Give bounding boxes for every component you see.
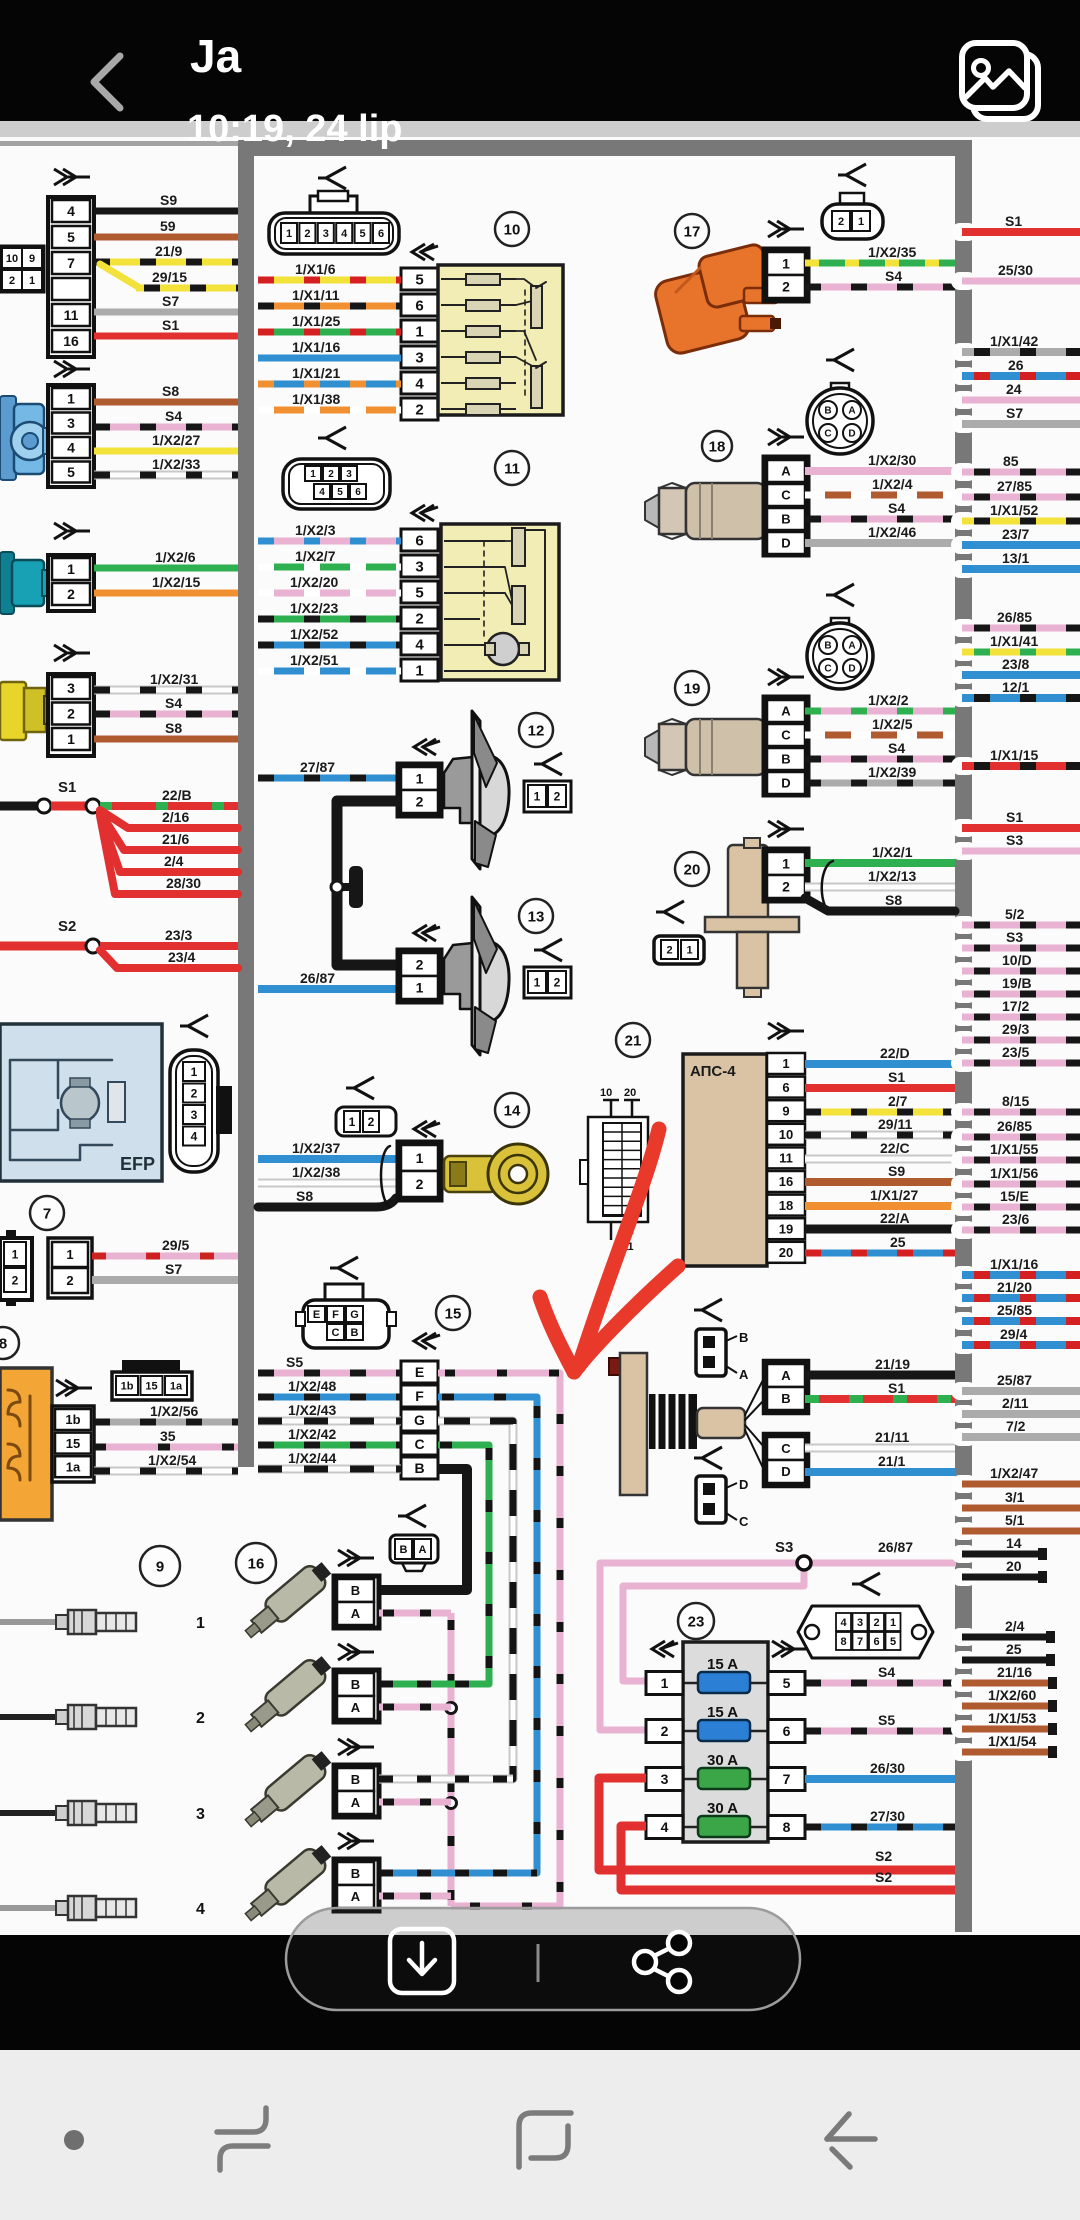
svg-text:10: 10: [6, 253, 18, 265]
svg-text:4: 4: [319, 487, 325, 498]
wire 1/X2/33 white/black: [94, 471, 238, 480]
svg-text:2: 2: [415, 401, 423, 418]
svg-text:1/X1/6: 1/X1/6: [295, 261, 336, 277]
svg-text:29/15: 29/15: [152, 269, 187, 285]
injector 3 A wire pink: [379, 1799, 451, 1806]
svg-text:6: 6: [415, 297, 423, 314]
connector arrow above X2 stack: [54, 361, 90, 377]
radiator fan motor 12: [444, 757, 473, 823]
svg-text:1/X2/5: 1/X2/5: [872, 716, 913, 732]
ECU controller frame right bar: [955, 140, 972, 1932]
wire 1/X2/30 pink: [805, 467, 955, 475]
svg-text:26/30: 26/30: [870, 1760, 905, 1776]
wire 25/30 (right stub): [951, 272, 977, 290]
svg-text:15 A: 15 A: [707, 1656, 738, 1673]
wire 1/X2/7 green/white: [258, 564, 401, 571]
svg-text:A: A: [351, 1795, 361, 1810]
svg-text:4: 4: [661, 1819, 669, 1835]
svg-text:S4: S4: [165, 695, 182, 711]
ignition module pin stack 1b/15/1a: [52, 1406, 94, 1482]
wire 26/87 blue: [258, 985, 401, 993]
wire S1 red: [805, 1084, 955, 1092]
svg-text:18: 18: [779, 1198, 793, 1213]
svg-text:21: 21: [625, 1033, 642, 1050]
injector 2 B wire: [379, 1681, 489, 1688]
svg-text:D: D: [781, 536, 790, 551]
O2 sensor 19 round connector B/A/C/D: [831, 618, 849, 630]
wire 85 (right stub): [951, 463, 977, 481]
numbered circle 9: [140, 1546, 180, 1586]
svg-text:1/X1/52: 1/X1/52: [990, 502, 1038, 518]
svg-text:3: 3: [857, 1617, 863, 1629]
svg-text:S4: S4: [165, 408, 182, 424]
svg-text:19: 19: [779, 1221, 793, 1236]
svg-text:15: 15: [66, 1436, 80, 1451]
connector D/C (item 22): [696, 1476, 726, 1523]
svg-text:27/30: 27/30: [870, 1808, 905, 1824]
wire 1/X2/15 orange: [94, 590, 238, 597]
harness run black B to injector 1: [376, 1469, 467, 1590]
wire 29/11 white/black: [805, 1131, 955, 1140]
bottom black letterbox bar: [0, 1935, 1080, 2050]
wire 1/X1/38 orange/white: [258, 407, 401, 414]
wire S4 pink/black: [805, 756, 955, 763]
spark plug 3: [0, 1810, 58, 1816]
fuel injector 2: [239, 1651, 335, 1738]
svg-text:59: 59: [160, 218, 176, 234]
fork above injector rail connector: [398, 1505, 426, 1527]
numbered circle 8 (edge): [0, 1327, 19, 1359]
wire 1/X2/13 white: [805, 883, 955, 892]
svg-text:27/87: 27/87: [300, 759, 335, 775]
svg-text:A: A: [848, 641, 855, 652]
wire 1/X2/23 green/black: [258, 616, 401, 623]
svg-text:1: 1: [534, 789, 541, 803]
crank sensor connector 2|1: [654, 936, 704, 964]
wire 1/X2/48 blue/black: [258, 1394, 401, 1401]
wire 10/D (right stub): [951, 962, 977, 980]
oil pressure sensor (yellow): [0, 682, 26, 740]
svg-text:E: E: [415, 1364, 424, 1380]
wire 1/X1/25 green/red: [258, 329, 401, 336]
wire S5 pink/black (fuse 6): [805, 1728, 955, 1735]
svg-text:1/X2/39: 1/X2/39: [868, 764, 916, 780]
wire S4 pink/black (fuse 5): [805, 1680, 955, 1687]
wire 1/X2/54 white/black: [94, 1467, 238, 1476]
svg-text:21/19: 21/19: [875, 1356, 910, 1372]
svg-text:S3: S3: [775, 1539, 793, 1556]
wire 1/X1/21 blue/orange: [258, 381, 401, 388]
fork above item 15 connector: [330, 1257, 358, 1279]
red annotation arrow tail: [579, 1129, 659, 1366]
svg-text:S3: S3: [1006, 929, 1023, 945]
svg-text:2/7: 2/7: [888, 1093, 908, 1109]
wire S1 (right stub): [951, 223, 977, 241]
harness run pink (S5) E to injector feed: [438, 1373, 560, 1906]
wire S8 black (shielded): [258, 1198, 396, 1207]
svg-text:B: B: [781, 752, 790, 767]
svg-text:1/X2/4: 1/X2/4: [872, 476, 913, 492]
connector arrow above X4 stack: [54, 645, 90, 661]
fuse 30A #4: [683, 1826, 768, 1829]
svg-text:D: D: [739, 1477, 748, 1492]
wire 22/B red/green: [100, 802, 238, 810]
svg-text:9: 9: [782, 1103, 789, 1118]
wire 29/3 (right stub): [951, 1031, 977, 1049]
wire 1/X1/54 (right stub): [951, 1743, 977, 1761]
svg-text:S4: S4: [888, 500, 905, 516]
svg-text:1a: 1a: [66, 1459, 81, 1474]
svg-text:7/2: 7/2: [1006, 1418, 1026, 1434]
svg-text:2: 2: [661, 1723, 669, 1739]
svg-text:1: 1: [416, 980, 424, 996]
svg-text:B: B: [351, 1583, 360, 1598]
svg-text:1: 1: [782, 1056, 789, 1071]
wire 25/85 (right stub): [951, 1312, 977, 1330]
svg-text:10: 10: [779, 1127, 793, 1142]
svg-text:1: 1: [67, 391, 75, 407]
svg-text:1/X1/11: 1/X1/11: [292, 287, 340, 303]
svg-text:3: 3: [196, 1806, 205, 1823]
fork above fan 13 connector: [534, 939, 562, 961]
svg-text:6: 6: [355, 487, 361, 498]
svg-text:B: B: [824, 406, 831, 417]
svg-text:1/X2/35: 1/X2/35: [868, 244, 916, 260]
svg-text:25/87: 25/87: [997, 1372, 1032, 1388]
svg-text:35: 35: [160, 1428, 176, 1444]
wire 21/9 yellow/black: [94, 259, 238, 266]
connector block of item 11 (2x3): [283, 459, 390, 509]
wire 1/X2/2 pink/green: [805, 708, 955, 715]
svg-text:B: B: [351, 1866, 360, 1881]
injector 4 B wire: [379, 1870, 537, 1877]
svg-text:26/85: 26/85: [997, 609, 1032, 625]
svg-text:26: 26: [1008, 357, 1024, 373]
svg-text:14: 14: [1006, 1535, 1022, 1551]
indicator lamp block (item 21): [610, 1100, 613, 1120]
svg-text:S1: S1: [888, 1380, 905, 1396]
scan page top border line (left section): [0, 141, 238, 146]
wire 1/X2/31 white/black: [94, 686, 238, 695]
svg-text:1: 1: [67, 561, 75, 577]
ECU arrow item 10: [412, 244, 438, 260]
svg-text:1/X1/27: 1/X1/27: [870, 1187, 918, 1203]
wire 1/X2/52 blue/black: [258, 642, 401, 649]
wire S4 pink/black: [94, 711, 238, 718]
red annotation arrow head left stroke: [540, 1297, 574, 1372]
O2 sensor 19 pin box A/C/B/D: [768, 669, 804, 685]
svg-text:1: 1: [415, 662, 423, 679]
arrow above ignition module pins: [56, 1380, 92, 1396]
svg-text:B: B: [739, 1330, 748, 1345]
svg-text:A: A: [781, 464, 791, 479]
svg-text:3: 3: [415, 558, 423, 575]
connector X3 pin stack 1/2: [48, 555, 94, 611]
svg-text:2: 2: [416, 1176, 424, 1192]
svg-text:C: C: [332, 1327, 340, 1339]
wire 1/X2/4 brown/white: [805, 492, 955, 499]
svg-text:S4: S4: [885, 268, 902, 284]
ignition coil (orange): [653, 264, 752, 356]
svg-text:4: 4: [196, 1901, 205, 1918]
O2 sensor 18 pin box A/C/B/D: [768, 429, 804, 445]
junction node on fan link: [337, 883, 352, 891]
fan 12 connector 1|2: [524, 781, 571, 812]
wire 26/87 pink with S3 splice: [600, 1563, 956, 1730]
svg-text:A: A: [781, 1368, 791, 1383]
svg-text:S9: S9: [160, 192, 177, 208]
svg-text:21/9: 21/9: [155, 243, 182, 259]
wire S1 red/green: [805, 1395, 955, 1403]
svg-text:S1: S1: [162, 317, 179, 333]
svg-text:22/B: 22/B: [162, 787, 192, 803]
connector fork above item 10: [318, 167, 346, 189]
separator line: [537, 1944, 540, 1982]
svg-text:1/X2/20: 1/X2/20: [290, 574, 338, 590]
camshaft sensor (blue): [0, 396, 16, 480]
svg-text:15 A: 15 A: [707, 1704, 738, 1721]
numbered circle 17: [675, 214, 709, 248]
svg-text:1: 1: [661, 1675, 669, 1691]
svg-text:C: C: [781, 1441, 791, 1456]
svg-text:5: 5: [890, 1636, 896, 1648]
svg-text:1/X2/44: 1/X2/44: [288, 1450, 336, 1466]
fuel injector 4: [239, 1840, 335, 1927]
svg-text:25/30: 25/30: [998, 262, 1033, 278]
wire 1/X2/39 gray/black: [805, 780, 955, 787]
svg-text:1/X2/51: 1/X2/51: [290, 652, 338, 668]
svg-text:6: 6: [783, 1723, 791, 1739]
svg-text:2/4: 2/4: [164, 853, 184, 869]
svg-text:8: 8: [840, 1636, 846, 1648]
svg-text:B: B: [351, 1327, 359, 1339]
fuse 15A #2: [683, 1730, 768, 1733]
injector 4 A wire pink: [379, 1893, 451, 1900]
APS-4 pin column: [768, 1023, 804, 1039]
wire 29/15 yellow/black: [100, 264, 140, 288]
svg-text:2: 2: [191, 1086, 198, 1100]
injector 2 A wire pink: [379, 1704, 451, 1711]
item 22 pin boxes A/B and C/D: [764, 1361, 808, 1413]
svg-text:29/11: 29/11: [878, 1116, 912, 1132]
ECU pin column 6/3/5/2/4/1: [401, 529, 438, 551]
injector 2 arrow: [338, 1644, 374, 1660]
svg-text:1/X2/30: 1/X2/30: [868, 452, 916, 468]
svg-text:1: 1: [191, 1065, 198, 1079]
wire 1/X2/20 pink/white: [258, 590, 401, 597]
S3 splice branch to fuse 1: [623, 1563, 804, 1681]
numbered circle 15: [436, 1296, 470, 1330]
svg-text:2: 2: [873, 1617, 879, 1629]
wire 1/X1/15 (right stub): [951, 757, 977, 775]
svg-text:D: D: [848, 429, 855, 440]
svg-text:1/X1/42: 1/X1/42: [990, 333, 1038, 349]
oxygen sensor 18: [645, 494, 659, 528]
svg-text:3: 3: [415, 349, 423, 366]
spark plug 1: [0, 1619, 58, 1625]
svg-text:1: 1: [12, 1247, 19, 1261]
wire 1/X2/60 (right stub): [951, 1697, 977, 1715]
svg-text:2: 2: [666, 944, 672, 956]
svg-text:25/85: 25/85: [997, 1302, 1032, 1318]
svg-text:S7: S7: [162, 293, 179, 309]
wire 1/X2/46 gray: [805, 539, 955, 547]
wire 22/D blue: [805, 1060, 955, 1068]
fuse 15A #1: [683, 1682, 768, 1685]
svg-text:1/X2/13: 1/X2/13: [868, 868, 916, 884]
svg-text:1/X2/43: 1/X2/43: [288, 1402, 336, 1418]
wire 12/1 (right stub): [951, 689, 977, 707]
svg-text:S3: S3: [1006, 832, 1023, 848]
svg-text:1a: 1a: [170, 1380, 183, 1392]
solenoid valve (item 22): [609, 1358, 623, 1375]
item 15 pin column E/F/G/C/B: [401, 1361, 438, 1383]
fan 13 connector 1|2: [524, 967, 571, 998]
svg-text:10:19, 24 lip: 10:19, 24 lip: [187, 108, 402, 150]
svg-text:15/E: 15/E: [1000, 1188, 1029, 1204]
svg-text:S1: S1: [888, 1069, 905, 1085]
svg-text:1/X2/54: 1/X2/54: [148, 1452, 196, 1468]
wire 1/X2/3 pink/blue: [258, 538, 401, 545]
scanned photo top gray edge: [0, 121, 1080, 137]
svg-text:2: 2: [368, 1115, 375, 1129]
numbered circle 11: [495, 451, 529, 485]
8-pin hex connector 4/3/2/1 8/7/6/5: [798, 1606, 933, 1658]
oxygen sensor 19: [645, 730, 659, 764]
svg-text:3: 3: [661, 1771, 669, 1787]
svg-text:C: C: [414, 1436, 424, 1452]
injector 4 arrow: [338, 1833, 374, 1849]
svg-text:S8: S8: [162, 383, 179, 399]
svg-text:5: 5: [67, 229, 75, 245]
svg-text:14: 14: [504, 1103, 521, 1120]
svg-text:1: 1: [67, 731, 75, 747]
svg-text:1/X1/54: 1/X1/54: [988, 1733, 1036, 1749]
wire 28/30 red: [100, 816, 238, 894]
svg-text:21/1: 21/1: [878, 1453, 905, 1469]
svg-text:2: 2: [328, 469, 334, 480]
injector 1 arrow: [338, 1550, 374, 1566]
svg-text:2: 2: [9, 275, 15, 287]
svg-text:S4: S4: [888, 740, 905, 756]
S3 splice node: [797, 1556, 811, 1570]
svg-text:2: 2: [196, 1710, 205, 1727]
wire 3/1 (right stub): [951, 1499, 977, 1517]
wire 29/5 pink/red: [92, 1253, 238, 1260]
svg-text:20: 20: [684, 862, 701, 879]
svg-text:6: 6: [378, 228, 384, 240]
wire 21/1 blue: [805, 1468, 955, 1476]
svg-text:1/X1/21: 1/X1/21: [292, 365, 340, 381]
crankshaft position sensor (beige): [728, 845, 768, 921]
fork above coil connector: [838, 164, 866, 186]
svg-text:1/X2/33: 1/X2/33: [152, 456, 200, 472]
wire 1/X1/11 orange/black: [258, 303, 401, 310]
wire 26/85 (right stub): [951, 619, 977, 637]
wire S7 (right stub): [951, 415, 977, 433]
wire 1/X1/6 yellow/red: [258, 277, 401, 284]
svg-text:4: 4: [415, 375, 424, 392]
svg-text:1/X1/56: 1/X1/56: [990, 1165, 1038, 1181]
svg-text:13: 13: [528, 909, 545, 926]
svg-text:1: 1: [782, 856, 790, 872]
ECU arrow item 14: [414, 1121, 440, 1137]
numbered circle 12: [519, 713, 553, 747]
svg-text:22/C: 22/C: [880, 1140, 910, 1156]
connector small 4-pin (10/9/2/1) at left edge: [0, 246, 44, 292]
svg-text:2/4: 2/4: [1005, 1618, 1025, 1634]
svg-text:1: 1: [890, 1617, 896, 1629]
svg-text:16: 16: [779, 1174, 793, 1189]
svg-text:2: 2: [415, 610, 423, 627]
svg-text:26/87: 26/87: [300, 970, 335, 986]
wire 26/85 (right stub): [951, 1128, 977, 1146]
fuse 30A #3: [683, 1778, 768, 1781]
svg-text:2: 2: [66, 1273, 73, 1288]
svg-text:29/5: 29/5: [162, 1237, 189, 1253]
svg-text:E: E: [313, 1309, 320, 1321]
svg-text:9: 9: [156, 1559, 164, 1576]
svg-text:1: 1: [310, 469, 316, 480]
svg-text:A: A: [351, 1889, 361, 1904]
wire S3 (right stub): [951, 939, 977, 957]
ECU arrows fuse box: [652, 1641, 678, 1657]
fork above O2 sensor 18 connector: [826, 349, 854, 371]
svg-text:1/X2/56: 1/X2/56: [150, 1403, 198, 1419]
wire 25 (right stub): [951, 1651, 977, 1669]
fork above knock sensor connector: [346, 1077, 374, 1099]
svg-text:27/85: 27/85: [997, 478, 1032, 494]
svg-text:8/15: 8/15: [1002, 1093, 1029, 1109]
wire 26/30 blue (fuse 7): [805, 1775, 955, 1783]
knock sensor (yellow ring): [444, 1156, 496, 1192]
numbered circle 18: [702, 431, 732, 461]
svg-text:30 A: 30 A: [707, 1800, 738, 1817]
O2 sensor 18 round connector B/A/C/D: [831, 383, 849, 395]
wire 23/6 (right stub): [951, 1221, 977, 1239]
svg-text:12: 12: [528, 723, 545, 740]
wire 1/X2/43 white/black: [258, 1417, 401, 1426]
svg-text:S2: S2: [875, 1869, 892, 1885]
svg-text:1/X1/16: 1/X1/16: [990, 1256, 1038, 1272]
driver block of item 10 (yellow): [438, 265, 563, 415]
wire 1/X1/52 (right stub): [951, 512, 977, 530]
wire 1/X1/16 (right stub): [951, 1266, 977, 1284]
svg-text:B: B: [824, 641, 831, 652]
svg-text:1/X2/46: 1/X2/46: [868, 524, 916, 540]
numbered circle 13: [519, 899, 553, 933]
svg-text:23/8: 23/8: [1002, 656, 1029, 672]
ECU arrow item 13: [414, 925, 440, 941]
svg-text:S5: S5: [286, 1354, 303, 1370]
svg-text:1/X1/15: 1/X1/15: [990, 747, 1038, 763]
bottom navigation bar background: [0, 2050, 1080, 2220]
svg-text:11: 11: [64, 307, 79, 323]
svg-text:1/X2/42: 1/X2/42: [288, 1426, 336, 1442]
nav recents button: [217, 2108, 266, 2132]
wire 1/X2/47 (right stub): [951, 1475, 977, 1493]
numbered circle 10: [495, 212, 529, 246]
svg-text:2: 2: [416, 957, 424, 973]
wire 1/X2/44 white/black: [258, 1465, 401, 1474]
svg-text:5/1: 5/1: [1005, 1512, 1025, 1528]
wire 1/X2/35 green/yellow: [805, 260, 955, 267]
wire 2/11 (right stub): [951, 1405, 977, 1423]
nav hide-bar dot: [64, 2130, 84, 2150]
svg-text:15: 15: [445, 1306, 462, 1323]
wire 1/X1/53 (right stub): [951, 1720, 977, 1738]
wire 23/5 (right stub): [951, 1054, 977, 1072]
